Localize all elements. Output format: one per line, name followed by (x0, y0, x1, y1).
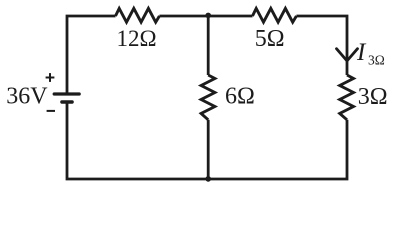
svg-text:I: I (356, 39, 367, 66)
svg-text:3Ω: 3Ω (368, 52, 385, 67)
svg-text:12Ω: 12Ω (117, 26, 157, 51)
svg-text:36V: 36V (6, 84, 48, 110)
svg-text:5Ω: 5Ω (255, 26, 285, 52)
svg-text:6Ω: 6Ω (225, 83, 255, 109)
svg-text:3Ω: 3Ω (358, 84, 388, 110)
